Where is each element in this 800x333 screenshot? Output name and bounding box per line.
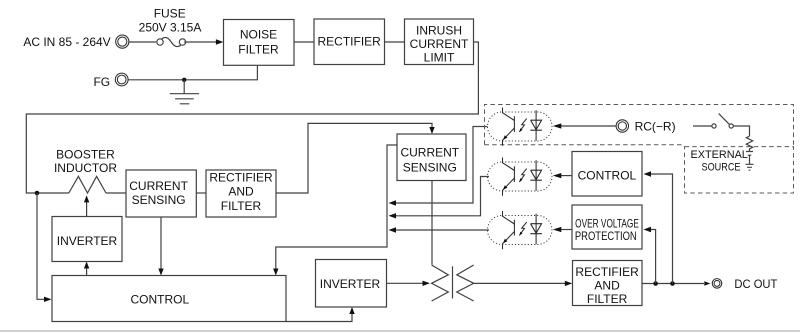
svg-text:FILTER: FILTER (587, 292, 628, 306)
svg-text:RECTIFIER: RECTIFIER (209, 171, 273, 185)
svg-text:INRUSH: INRUSH (416, 23, 462, 37)
svg-text:INDUCTOR: INDUCTOR (54, 161, 117, 175)
svg-text:RECTIFIER: RECTIFIER (318, 35, 382, 49)
svg-text:SENSING: SENSING (132, 193, 186, 207)
svg-text:PROTECTION: PROTECTION (575, 229, 637, 243)
svg-text:FG: FG (93, 75, 110, 89)
svg-text:SENSING: SENSING (403, 160, 457, 174)
svg-text:DC OUT: DC OUT (734, 277, 778, 291)
svg-text:EXTERNAL: EXTERNAL (691, 149, 748, 161)
svg-text:AND: AND (228, 185, 254, 199)
svg-text:CURRENT: CURRENT (129, 179, 188, 193)
svg-text:LIMIT: LIMIT (424, 51, 455, 65)
svg-text:SOURCE: SOURCE (702, 162, 741, 174)
svg-text:FILTER: FILTER (238, 42, 279, 56)
svg-text:INVERTER: INVERTER (57, 234, 118, 248)
svg-text:CONTROL: CONTROL (130, 293, 189, 307)
svg-text:CURRENT: CURRENT (410, 37, 469, 51)
svg-text:AC IN 85 - 264V: AC IN 85 - 264V (23, 35, 110, 49)
svg-text:INVERTER: INVERTER (320, 277, 381, 291)
svg-text:RC(−R): RC(−R) (635, 120, 676, 134)
svg-text:RECTIFIER: RECTIFIER (575, 265, 639, 279)
svg-text:AND: AND (594, 279, 620, 293)
svg-text:CURRENT: CURRENT (400, 146, 459, 160)
svg-text:NOISE: NOISE (240, 28, 277, 42)
svg-text:BOOSTER: BOOSTER (56, 148, 115, 162)
svg-text:FUSE: FUSE (154, 6, 186, 20)
svg-text:CONTROL: CONTROL (578, 168, 637, 182)
svg-text:250V 3.15A: 250V 3.15A (139, 21, 202, 35)
svg-text:FILTER: FILTER (221, 199, 262, 213)
